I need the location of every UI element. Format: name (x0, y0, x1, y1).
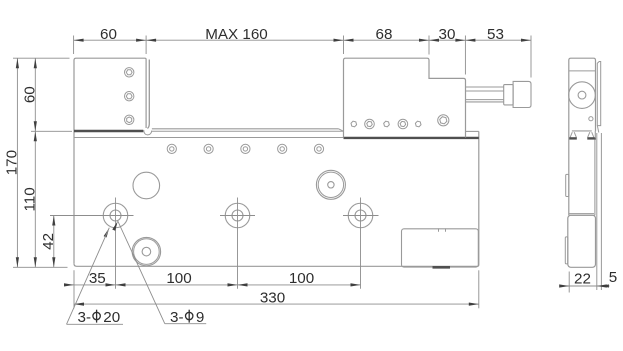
svg-text:60: 60 (21, 86, 38, 103)
svg-text:53: 53 (487, 26, 504, 43)
svg-text:3-: 3- (78, 309, 92, 326)
svg-text:5: 5 (609, 269, 617, 286)
svg-text:MAX 160: MAX 160 (205, 26, 267, 43)
svg-text:42: 42 (40, 233, 57, 250)
svg-text:170: 170 (4, 150, 21, 175)
svg-text:68: 68 (376, 26, 393, 43)
svg-text:110: 110 (21, 187, 38, 211)
svg-text:100: 100 (166, 270, 191, 287)
svg-text:330: 330 (260, 289, 285, 306)
svg-text:22: 22 (574, 271, 591, 288)
svg-text:3-: 3- (170, 309, 184, 326)
svg-text:35: 35 (89, 270, 106, 287)
svg-text:30: 30 (439, 26, 456, 43)
svg-text:9: 9 (196, 309, 204, 326)
svg-text:20: 20 (103, 309, 120, 326)
svg-text:100: 100 (289, 270, 314, 287)
svg-text:60: 60 (100, 26, 117, 43)
